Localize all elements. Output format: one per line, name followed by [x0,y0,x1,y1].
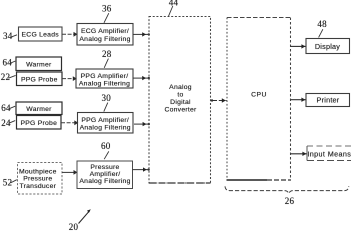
wire CPU to Printer [291,98,306,102]
ref numeral 22 [1,72,16,82]
svg-text:44: 44 [169,0,179,8]
wire ECG Leads to ECG amplifier [62,32,78,37]
svg-text:PPG Amplifier/: PPG Amplifier/ [81,117,129,124]
svg-text:Pressure: Pressure [23,176,52,183]
ref numeral 20 with arrow (whole system) [69,209,91,232]
box Warmer 1 [16,57,62,71]
wire ECG amplifier to ADC [133,32,150,36]
svg-text:30: 30 [102,93,112,103]
wire PPG amplifier 1 to ADC [133,76,150,80]
ref numeral 36 + lead line [102,4,112,23]
box PPG Probe 1 [17,72,63,86]
box Mouthpiece Pressure Transducer [18,163,63,195]
svg-text:28: 28 [102,49,112,59]
box Display [306,39,350,54]
svg-text:Analog Filtering: Analog Filtering [79,36,130,43]
svg-text:ECG Leads: ECG Leads [22,32,60,39]
ref numeral 34 [3,31,17,41]
svg-text:Mouthpiece: Mouthpiece [19,169,57,176]
wire Pressure amplifier to ADC [133,167,150,171]
ref numeral 48 + lead line [317,19,327,37]
svg-text:PPG Probe: PPG Probe [20,120,57,127]
svg-text:60: 60 [101,141,111,151]
box CPU [227,18,292,181]
svg-text:Converter: Converter [164,106,197,113]
svg-text:20: 20 [69,222,79,231]
box Printer [306,94,350,107]
svg-text:48: 48 [317,19,327,29]
ref numeral 24 [1,118,15,128]
svg-text:Warmer: Warmer [26,61,52,68]
svg-text:22: 22 [1,72,10,82]
box ECG Amplifier / Analog Filtering, ref 36 [77,24,133,46]
svg-text:Pressure: Pressure [90,164,119,171]
box Pressure Amplifier / Analog Filtering [77,161,133,189]
ref numeral 60 + lead line [101,141,111,159]
ref numeral 30 + lead line [102,93,112,112]
svg-text:ECG Amplifier/: ECG Amplifier/ [81,28,129,35]
wire CPU to Input Means [291,152,307,156]
svg-text:34: 34 [3,31,13,41]
svg-text:36: 36 [102,4,112,14]
ref numeral 44 + lead line [168,0,178,16]
svg-text:Analog Filtering: Analog Filtering [79,178,130,185]
svg-text:Warmer: Warmer [26,106,52,113]
svg-text:Amplifier/: Amplifier/ [90,171,121,178]
svg-text:to: to [177,92,183,99]
box PPG Probe 2 [17,116,62,130]
wire Mouthpiece transducer to Pressure amplifier [62,170,78,175]
wire PPG Probe 1 to PPG amplifier 1 [62,76,77,81]
svg-text:Analog Filtering: Analog Filtering [80,125,131,132]
wire ADC to CPU [211,98,227,102]
wire PPG Probe 2 to PPG amplifier 2 [61,120,78,125]
ref numeral 64 (upper) [3,58,16,68]
svg-text:Analog: Analog [169,84,192,91]
wire PPG amplifier 2 to ADC [134,122,150,126]
box ECG Leads [19,27,63,41]
ref numeral 28 + lead line [102,49,112,68]
ref numeral 52 [3,177,17,187]
box Analog to Digital Converter (ADC) [149,17,211,184]
box PPG Amplifier 2 / Analog Filtering [78,113,134,134]
box Warmer 2 [16,102,62,115]
ref numeral 64 (lower) [1,103,15,113]
svg-text:PPG Probe: PPG Probe [21,76,58,83]
svg-text:Input Means: Input Means [307,149,351,158]
box PPG Amplifier 1 / Analog Filtering [76,69,133,88]
svg-text:Display: Display [315,42,340,51]
svg-text:64: 64 [1,103,11,113]
svg-text:PPG Amplifier/: PPG Amplifier/ [81,73,129,80]
box Input Means [307,146,351,161]
wire CPU to Display [291,44,306,48]
svg-text:Digital: Digital [170,99,191,106]
svg-text:Printer: Printer [317,95,340,104]
svg-text:Analog Filtering: Analog Filtering [79,80,130,87]
svg-text:26: 26 [285,196,295,206]
svg-text:Transducer: Transducer [19,183,56,190]
svg-text:CPU: CPU [251,91,267,98]
brace under CPU with ref numeral 26 [225,186,349,206]
